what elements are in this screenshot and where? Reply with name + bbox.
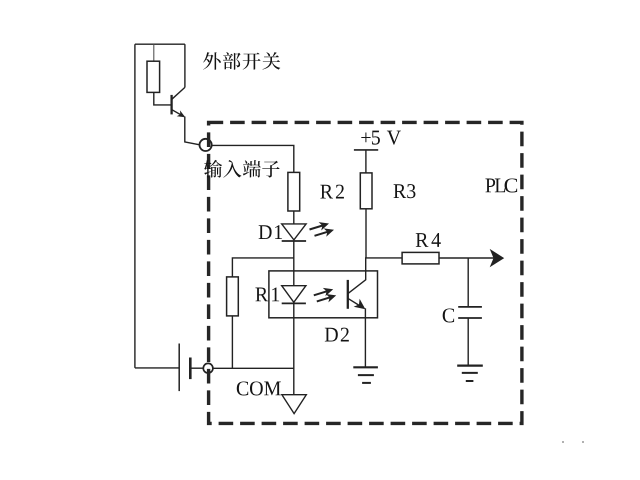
resistor (external switch branch, unlabeled) <box>147 61 160 92</box>
diode D1 <box>282 224 306 241</box>
resistor R3 <box>360 173 372 209</box>
wire: left rail to battery <box>135 367 179 369</box>
label D1 <box>259 225 282 239</box>
wire: top horizontal of external switch loop <box>135 43 185 45</box>
wire: D2 cathode down to COM arrow <box>293 303 295 394</box>
label: 外部开关 (external switch) <box>203 52 280 70</box>
wire: R1 bottom to COM rail <box>231 316 233 368</box>
wire: +5V bar to R3 <box>365 150 367 173</box>
label R3 <box>394 184 416 198</box>
+5V supply bar <box>354 149 378 151</box>
wire: R1 top to D1/D2 net <box>232 258 293 277</box>
ground (capacitor) <box>457 366 483 381</box>
label R2 <box>320 185 344 199</box>
node: COM terminal circle <box>203 363 213 373</box>
wire: feed from top rail into switch resistor <box>153 44 155 61</box>
light arrows at D1 <box>310 222 335 237</box>
wire: input node to R2 <box>212 145 294 172</box>
wire: R4 to output arrow <box>439 257 502 259</box>
phototransistor (optocoupler output) <box>348 258 366 309</box>
label PLC <box>485 178 517 192</box>
watermark remnant dots <box>562 441 564 443</box>
light arrows at D2 <box>314 288 336 303</box>
wire: D1 down into optocoupler LED <box>293 241 295 286</box>
output arrow <box>490 249 505 267</box>
PLC dashed boundary box <box>209 122 522 423</box>
ground (phototransistor emitter) <box>353 367 378 383</box>
COM terminal arrow (open triangle) <box>282 395 306 414</box>
wire: switch resistor to transistor base <box>154 92 172 105</box>
wire: phototransistor emitter to ground <box>364 308 366 367</box>
wire: C bottom to ground <box>467 318 469 365</box>
label +5V <box>361 131 401 145</box>
wire: R2 to D1 <box>293 211 295 224</box>
node: input terminal circle <box>200 139 212 151</box>
resistor R1 <box>227 277 239 316</box>
resistor R4 <box>402 252 439 264</box>
wire: output net down to capacitor C <box>467 258 469 307</box>
label D2 <box>325 328 349 342</box>
wire: COM rail <box>213 367 294 369</box>
transistor Q1 (external switch, NPN) <box>172 87 186 117</box>
battery cell (supply) <box>179 344 190 392</box>
wire: right vertical to transistor collector <box>184 44 186 87</box>
wire: junction to R4 <box>365 257 402 259</box>
label C <box>443 308 454 322</box>
wire: left vertical rail of external switch loop <box>134 44 136 368</box>
resistor R2 <box>288 172 300 211</box>
label R1 <box>255 287 279 301</box>
capacitor C plates <box>458 307 482 318</box>
label COM <box>237 381 281 395</box>
label R4 <box>416 233 441 247</box>
wire: R3 to collector junction <box>365 209 367 258</box>
optocoupler U1 box <box>269 271 378 318</box>
wire: Q1 emitter down to input node <box>185 117 200 145</box>
LED D2 (optocoupler input) <box>282 286 306 304</box>
wire: battery to COM node <box>190 367 203 369</box>
label: 输入端子 (input terminal) <box>204 160 280 178</box>
